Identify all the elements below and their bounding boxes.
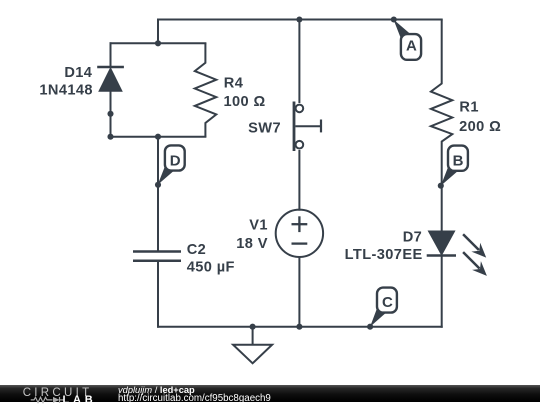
voltage source V1 <box>276 210 323 257</box>
svg-text:D: D <box>170 153 181 170</box>
svg-text:B: B <box>453 153 464 170</box>
wire switch SW7 to source V1 <box>298 151 300 210</box>
footer url text <box>118 394 271 404</box>
resistor R1 <box>431 20 452 186</box>
LED D7 <box>427 231 487 276</box>
LED D7 light arrow 1 <box>463 234 486 257</box>
junction parallel section bottom <box>155 134 161 140</box>
svg-text:A: A <box>406 38 417 55</box>
footer bar <box>0 385 540 402</box>
junction node C on bottom rail <box>367 324 373 330</box>
junction parallel section top <box>155 40 161 46</box>
junction node B on right branch <box>438 183 444 189</box>
ground <box>233 327 272 364</box>
junction node A on top rail <box>391 16 397 22</box>
resistor R4 <box>195 43 217 136</box>
svg-text:V1: V1 <box>249 218 268 234</box>
svg-text:R4: R4 <box>224 76 244 92</box>
CircuitLab logo <box>0 385 110 405</box>
wire LED D7 to bottom rail <box>441 256 443 327</box>
node B <box>441 146 468 186</box>
wire left branch down to capacitor C2 <box>157 137 159 251</box>
svg-text:C2: C2 <box>187 242 206 258</box>
svg-text:SW7: SW7 <box>248 120 281 136</box>
svg-text:1N4148: 1N4148 <box>39 82 93 98</box>
wire center branch top rail to switch SW7 <box>298 20 300 103</box>
wire top rail (node A net) <box>158 19 442 21</box>
node D <box>158 145 185 184</box>
wire source V1 to bottom rail <box>298 257 300 327</box>
svg-text:LTL-307EE: LTL-307EE <box>345 247 423 263</box>
svg-text:C: C <box>382 294 393 311</box>
svg-text:200 Ω: 200 Ω <box>459 119 501 135</box>
wire node B to LED D7 <box>441 186 443 232</box>
capacitor C2 <box>133 252 181 261</box>
node A <box>394 20 422 60</box>
junction parallel section bottom-left corner <box>107 134 113 140</box>
diode D14 <box>97 67 124 91</box>
footer title text <box>118 386 195 395</box>
switch SW7 (pushbutton) <box>294 102 321 152</box>
junction diode D14 anode lead <box>107 111 113 117</box>
wire diode branch lower lead <box>110 91 112 137</box>
wire parallel section top rail <box>111 42 206 44</box>
svg-text:D7: D7 <box>403 230 422 246</box>
junction ground on bottom rail <box>250 324 256 330</box>
node C <box>370 288 397 327</box>
junction node D on left branch <box>155 182 161 188</box>
LED D7 light arrow 2 <box>463 252 487 276</box>
svg-text:LAB: LAB <box>63 394 97 405</box>
svg-text:100 Ω: 100 Ω <box>224 94 266 110</box>
wire diode branch upper lead <box>110 43 112 67</box>
wire top-left drop to parallel section <box>157 20 159 44</box>
svg-text:450 µF: 450 µF <box>187 259 235 275</box>
wire bottom rail (node C net) <box>158 326 442 328</box>
svg-text:R1: R1 <box>459 100 478 116</box>
junction center branch / bottom rail <box>296 324 302 330</box>
wire parallel section bottom rail (node D net) <box>111 136 206 138</box>
junction center branch / top rail <box>296 16 302 22</box>
wire capacitor C2 to bottom rail <box>157 261 159 327</box>
svg-text:18 V: 18 V <box>236 236 268 252</box>
svg-text:D14: D14 <box>64 65 92 81</box>
